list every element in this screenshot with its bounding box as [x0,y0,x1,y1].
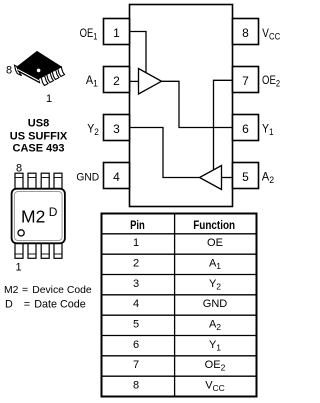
pin 2 box [104,67,130,93]
svg-text:7: 7 [133,359,139,371]
svg-text:5: 5 [133,319,139,331]
svg-text:5: 5 [242,170,249,184]
buffer triangle 2 [200,166,222,190]
pin 4 box [104,163,130,189]
pin 5 box [233,163,259,189]
package pin 8 lead (back left) [15,65,22,75]
svg-text:=: = [22,285,28,296]
pin 1 indicator circle [18,230,24,236]
svg-text:CASE 493: CASE 493 [13,143,65,155]
svg-text:Device Code: Device Code [32,285,92,296]
wire OE2 to buffer2 enable [214,80,233,170]
bottom leads [15,243,62,258]
package top face [17,52,61,79]
svg-text:D: D [49,205,58,219]
package side face [17,67,40,83]
svg-text:7: 7 [242,74,249,88]
svg-text:US8: US8 [28,117,49,129]
svg-text:GND: GND [76,172,99,184]
pin 1 box [104,19,130,45]
svg-text:GND: GND [203,298,228,310]
svg-text:M2: M2 [21,207,45,227]
svg-text:8: 8 [6,65,12,77]
svg-text:OE: OE [207,237,223,249]
US8 package top view [12,163,65,274]
svg-text:US SUFFIX: US SUFFIX [10,130,68,142]
caption US8 / US SUFFIX / CASE 493 [10,117,68,154]
pin 8 box [233,19,259,45]
US8 3D package icon [6,52,65,106]
wire A1 to buffer1 input [130,80,139,82]
svg-text:8: 8 [16,163,22,175]
pin 7 box [233,67,259,93]
package body outline [12,189,65,244]
svg-text:2: 2 [113,74,120,88]
svg-text:6: 6 [133,339,139,351]
svg-text:3: 3 [113,122,120,136]
wire buffer2 output to Y2 pin 3 [130,128,200,178]
svg-text:Date Code: Date Code [34,298,86,310]
wire OE1 to buffer1 enable [130,32,147,74]
svg-text:2: 2 [133,258,139,270]
svg-text:Pin: Pin [130,218,145,232]
pin 6 box [233,115,259,141]
legend M2 = Device Code [4,285,92,296]
wire buffer1 output to Y1 pin 6 [162,81,233,127]
pin1 indicator dot [37,69,41,73]
pin 3 box [104,115,130,141]
table column divider [174,214,176,397]
svg-text:3: 3 [133,278,139,290]
package leads front right [41,67,64,86]
svg-text:M2: M2 [4,285,19,296]
package body inner line [14,192,62,241]
svg-text:1: 1 [15,262,21,274]
legend D = Date Code [5,298,86,310]
svg-text:D: D [5,298,13,310]
buffer triangle 1 [139,69,162,95]
table outer border [102,214,257,397]
pin function table [102,214,257,397]
wire A2 to buffer2 input [222,177,233,179]
svg-text:8: 8 [133,380,139,392]
svg-text:8: 8 [242,26,249,40]
svg-text:1: 1 [133,237,139,249]
svg-text:4: 4 [133,298,139,310]
svg-text:6: 6 [242,122,249,136]
IC body rectangle U1 [130,5,233,207]
side face separation line [18,69,39,81]
svg-text:1: 1 [46,93,52,105]
svg-text:Function: Function [193,218,235,232]
svg-text:1: 1 [113,26,120,40]
table row lines [102,234,257,376]
svg-text:=: = [24,298,30,310]
svg-text:4: 4 [113,170,120,184]
top leads [15,173,62,189]
